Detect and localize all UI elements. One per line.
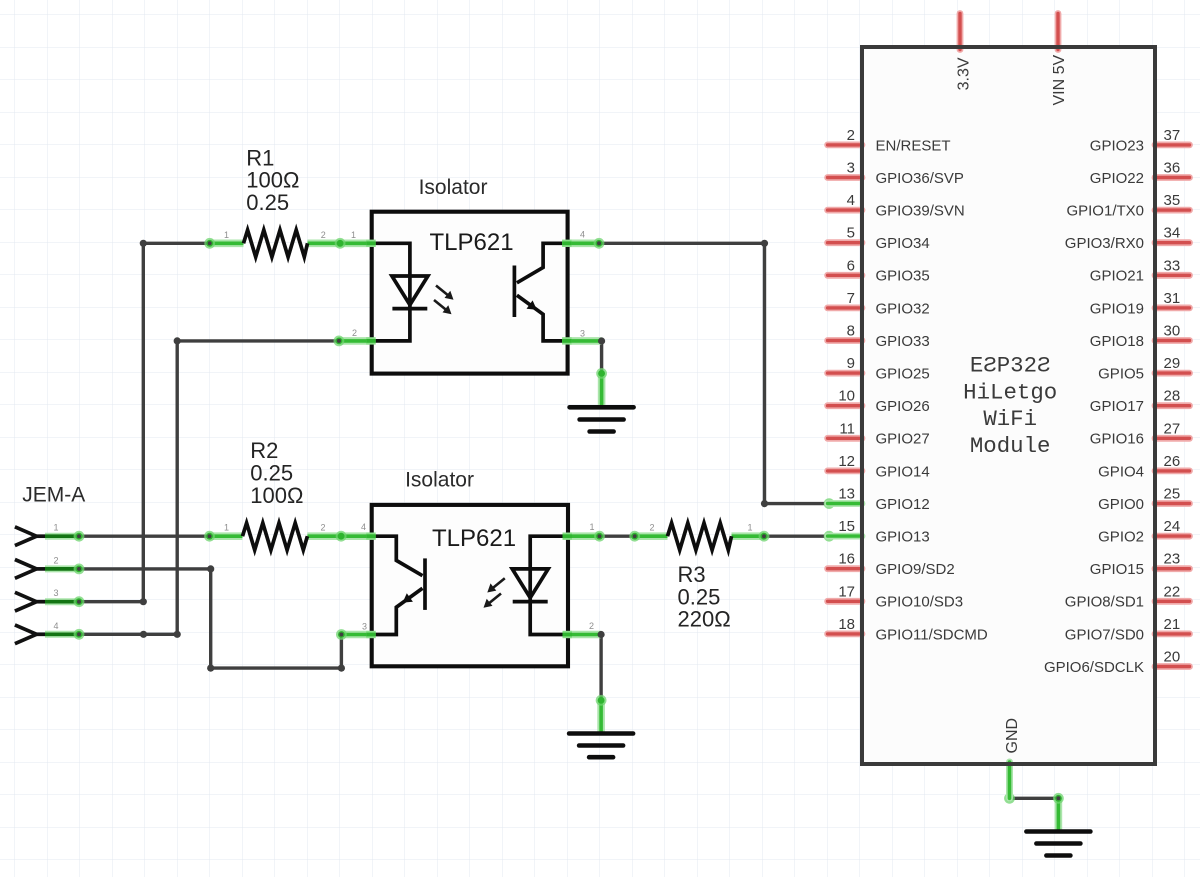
svg-text:GPIO33: GPIO33 (876, 333, 930, 350)
opto-isolator U1 box (372, 212, 568, 374)
wire isolator1 pin4 to GPIO12 (599, 243, 829, 503)
pin 16 GPIO9/SD2 stub (828, 565, 862, 572)
svg-text:9: 9 (847, 355, 855, 372)
svg-text:GPIO2: GPIO2 (1098, 529, 1144, 546)
svg-text:GPIO14: GPIO14 (876, 463, 930, 480)
svg-text:GPIO21: GPIO21 (1090, 268, 1144, 285)
svg-text:GPIO4: GPIO4 (1098, 463, 1144, 480)
svg-text:2: 2 (321, 230, 326, 240)
wire R1 feed from junction (143, 242, 209, 245)
svg-text:12: 12 (838, 453, 855, 470)
svg-text:1: 1 (54, 523, 59, 533)
svg-text:1: 1 (590, 522, 595, 532)
pin 3 GPIO36/SVP stub (828, 174, 862, 181)
node ground1 corner (598, 337, 605, 344)
node ground2 corner (598, 631, 605, 638)
svg-text:13: 13 (838, 486, 855, 503)
pin 11 GPIO27 stub (828, 435, 862, 442)
svg-text:4: 4 (361, 522, 366, 532)
pin 9 GPIO25 stub (828, 370, 862, 377)
svg-text:0.25: 0.25 (678, 584, 721, 609)
pin 5 GPIO34 stub (828, 239, 862, 246)
wire green R2 left lead (210, 532, 243, 540)
svg-text:27: 27 (1164, 420, 1181, 437)
pin pad U1 pin4 (562, 240, 572, 247)
node ground1 bend (596, 368, 607, 379)
svg-text:GPIO35: GPIO35 (876, 268, 930, 285)
svg-text:15: 15 (838, 518, 855, 535)
svg-text:6: 6 (847, 257, 855, 274)
wire module GND horizontal (1010, 797, 1059, 800)
node JEM3 terminal (74, 596, 85, 607)
svg-text:Isolator: Isolator (419, 176, 488, 199)
svg-text:24: 24 (1164, 518, 1181, 535)
svg-text:GPIO3/RX0: GPIO3/RX0 (1065, 235, 1144, 252)
svg-text:33: 33 (1164, 257, 1181, 274)
svg-text:GPIO23: GPIO23 (1090, 137, 1144, 154)
svg-text:GPIO12: GPIO12 (876, 496, 930, 513)
svg-text:GPIO5: GPIO5 (1098, 366, 1144, 383)
pin 7 GPIO32 stub (828, 304, 862, 311)
node R1 left bend (204, 238, 215, 249)
svg-text:GPIO11/SDCMD: GPIO11/SDCMD (876, 626, 988, 643)
wire JEM1 to R2 (79, 535, 210, 538)
pin 13 GPIO12 stub (828, 500, 862, 507)
pin pad U2 pin3 (366, 631, 376, 638)
svg-text:3: 3 (54, 588, 59, 598)
pin 34 GPIO3/RX0 stub (1155, 239, 1190, 246)
node R2 right bend (336, 531, 347, 542)
node R2 left bend (204, 531, 215, 542)
pin 4 GPIO39/SVN stub (828, 207, 862, 214)
resistor R3 value labels (678, 562, 731, 632)
svg-text:GND: GND (1004, 718, 1021, 754)
svg-text:1: 1 (748, 523, 753, 533)
svg-text:R3: R3 (678, 562, 706, 587)
svg-text:11: 11 (839, 420, 855, 437)
node R1 junction (140, 240, 147, 247)
svg-text:EƧP32Ƨ: EƧP32Ƨ (970, 353, 1051, 379)
svg-text:4: 4 (54, 621, 59, 631)
node R3 right bend (759, 531, 770, 542)
svg-text:23: 23 (1164, 551, 1181, 568)
pin 23 GPIO15 stub (1155, 565, 1190, 572)
pin GND stub (green) (1006, 762, 1013, 798)
svg-text:3.3V: 3.3V (955, 57, 972, 90)
svg-text:WiFi: WiFi (983, 406, 1037, 432)
connector JEM-A pin digits (54, 523, 59, 631)
node JEM2 corner a (207, 565, 214, 572)
svg-text:100Ω: 100Ω (246, 168, 299, 193)
svg-text:21: 21 (1164, 616, 1181, 633)
svg-text:20: 20 (1164, 649, 1181, 666)
node isolator2 pin3 bend (336, 629, 347, 640)
svg-text:25: 25 (1164, 486, 1181, 503)
pin 35 GPIO1/TX0 stub (1155, 207, 1190, 214)
svg-text:GPIO25: GPIO25 (876, 366, 930, 383)
wire green R1 left lead (210, 240, 244, 248)
svg-text:TLP621: TLP621 (432, 525, 516, 552)
pin 27 GPIO16 stub (1155, 435, 1190, 442)
phototransistor inside U1 (514, 243, 567, 341)
svg-text:2: 2 (54, 555, 59, 565)
svg-text:26: 26 (1164, 453, 1181, 470)
pin 28 GPIO17 stub (1155, 402, 1190, 409)
svg-text:GPIO15: GPIO15 (1090, 561, 1144, 578)
connector JEM-A pin 2 (15, 560, 79, 579)
pin 20 GPIO6/SDCLK stub (1155, 663, 1190, 670)
svg-text:GPIO34: GPIO34 (876, 235, 930, 252)
pin pad U2 pin2 (563, 631, 573, 638)
pin 30 GPIO18 stub (1155, 337, 1190, 344)
svg-text:4: 4 (580, 229, 585, 239)
svg-text:GPIO39/SVN: GPIO39/SVN (876, 203, 965, 220)
node GPIO12 bend (824, 498, 835, 509)
wire green isolator1 pin4 stub (565, 240, 599, 248)
node GPIO12 corner b (761, 500, 768, 507)
svg-text:3: 3 (580, 328, 585, 338)
wire green isolator1 pin2 stub (339, 337, 375, 345)
pin pad U1 pin1 (366, 240, 376, 247)
node JEM1 terminal (74, 531, 85, 542)
svg-text:30: 30 (1164, 323, 1181, 340)
wire green isolator1 pin3 stub (565, 337, 602, 345)
svg-text:17: 17 (838, 583, 855, 600)
ESP32 module center label (963, 353, 1057, 459)
svg-text:31: 31 (1164, 290, 1181, 307)
phototransistor U1 emitter arrow (527, 300, 537, 309)
svg-text:36: 36 (1164, 160, 1181, 177)
svg-text:2: 2 (650, 523, 655, 533)
svg-text:29: 29 (1164, 355, 1181, 372)
pin 25 GPIO0 stub (1155, 500, 1190, 507)
pin 24 GPIO2 stub (1155, 533, 1190, 540)
node JEM3 corner (140, 598, 147, 605)
svg-text:GPIO36/SVP: GPIO36/SVP (876, 170, 964, 187)
wire green R1 right to isolator1 pin1 (308, 240, 375, 248)
wire isolator2 pin1 to R3 mid segment (600, 535, 635, 538)
DARK JUNCTION DOTS (140, 240, 768, 672)
wire green R3 right lead (732, 532, 765, 540)
svg-text:3: 3 (847, 160, 855, 177)
svg-text:2: 2 (589, 621, 594, 631)
node GPIO12 corner a (761, 240, 768, 247)
ground symbol G2 below isolator2 (569, 734, 633, 758)
node JEM4 terminal (74, 629, 85, 640)
node R3 left bend (629, 531, 640, 542)
pin pad U2 pin1 (563, 533, 573, 540)
svg-text:Isolator: Isolator (405, 469, 474, 492)
GREEN BENDPOINT DOTS (74, 238, 1064, 804)
svg-text:0.25: 0.25 (250, 461, 293, 486)
pin 37 GPIO23 stub (1155, 141, 1190, 148)
svg-text:GPIO1/TX0: GPIO1/TX0 (1066, 203, 1144, 220)
wire vertical JEM3 to R1 junction (79, 243, 143, 601)
svg-text:GPIO6/SDCLK: GPIO6/SDCLK (1044, 659, 1144, 676)
node JEM4 bend b (174, 631, 181, 638)
wire green R3 left lead (635, 532, 668, 540)
pin 12 GPIO14 stub (828, 467, 862, 474)
node JEM4 bend a (140, 631, 147, 638)
svg-text:GPIO19: GPIO19 (1090, 300, 1144, 317)
wire JEM2 to isolator2 pin3 (79, 569, 341, 668)
svg-text:GPIO32: GPIO32 (876, 300, 930, 317)
wire green ground3 drop (1055, 798, 1063, 831)
svg-text:EN/RESET: EN/RESET (876, 137, 951, 154)
pin 3.3V stub (957, 14, 964, 50)
svg-text:8: 8 (847, 323, 855, 340)
node R1 right bend (335, 238, 346, 249)
pin 26 GPIO4 stub (1155, 467, 1190, 474)
wire isolator1 pin3 down to ground (600, 341, 603, 374)
svg-text:7: 7 (847, 290, 855, 307)
svg-text:100Ω: 100Ω (250, 483, 303, 508)
node GPIO13 bend (824, 531, 835, 542)
LED U1 light arrows (434, 286, 454, 315)
LED U2 light arrows (484, 578, 505, 608)
svg-text:18: 18 (838, 616, 855, 633)
svg-text:4: 4 (847, 192, 855, 209)
node JEM2 terminal (74, 564, 85, 575)
svg-text:1: 1 (224, 523, 229, 533)
ESP32 module U3 body fill (862, 47, 1155, 764)
LED inside U1 (372, 243, 428, 341)
svg-text:1: 1 (224, 230, 229, 240)
svg-text:3: 3 (362, 622, 367, 632)
pin 31 GPIO19 stub (1155, 304, 1190, 311)
pin 21 GPIO7/SD0 stub (1155, 631, 1190, 638)
wire green isolator2 pin1 stub (565, 532, 599, 540)
svg-text:GPIO26: GPIO26 (876, 398, 930, 415)
svg-text:GPIO18: GPIO18 (1090, 333, 1144, 350)
LED inside U2 (512, 536, 568, 634)
resistor R1 value labels (246, 145, 299, 215)
opto-isolator U2 box (372, 505, 568, 666)
svg-text:2: 2 (352, 328, 357, 338)
svg-text:Module: Module (970, 433, 1051, 459)
svg-text:16: 16 (838, 551, 855, 568)
svg-text:GPIO10/SD3: GPIO10/SD3 (876, 594, 964, 611)
node isolator1 pin2 corner (174, 337, 181, 344)
svg-text:0.25: 0.25 (246, 190, 289, 215)
svg-text:GPIO27: GPIO27 (876, 431, 930, 448)
pin 15 GPIO13 stub (828, 533, 862, 540)
svg-text:TLP621: TLP621 (430, 229, 514, 256)
wire isolator2 pin2 down to ground (599, 635, 602, 701)
svg-text:R1: R1 (246, 145, 274, 170)
isolator U2 pin digits (224, 522, 753, 631)
svg-text:34: 34 (1164, 225, 1181, 242)
wire JEM4 to isolator1 pin2 (79, 341, 339, 634)
svg-text:GPIO17: GPIO17 (1090, 398, 1144, 415)
svg-text:JEM-A: JEM-A (22, 483, 85, 506)
wire green ground1 drop (598, 373, 606, 406)
wire green isolator2 pin3 stub (341, 631, 374, 639)
svg-text:R2: R2 (250, 438, 278, 463)
pin 33 GPIO21 stub (1155, 272, 1190, 279)
svg-text:GPIO9/SD2: GPIO9/SD2 (876, 561, 955, 578)
svg-text:1: 1 (351, 230, 356, 240)
resistor R2 value labels (250, 438, 303, 508)
pin 18 GPIO11/SDCMD stub (828, 631, 862, 638)
svg-text:22: 22 (1164, 583, 1181, 600)
pin pad U2 pin4 (366, 533, 376, 540)
node isolator1 pin2 bend (334, 336, 345, 347)
wire green R2 right to isolator2 pin4 (307, 532, 374, 540)
node ground2 bend (596, 695, 607, 706)
pin 22 GPIO8/SD1 stub (1155, 598, 1190, 605)
WIRES-GREEN (210, 243, 1059, 831)
svg-text:GPIO8/SD1: GPIO8/SD1 (1065, 594, 1144, 611)
phototransistor U2 emitter arrow (403, 593, 413, 602)
pin 10 GPIO26 stub (828, 402, 862, 409)
node GND wire bend right (1053, 793, 1064, 804)
resistor R2 (243, 523, 308, 550)
resistor R1 (244, 230, 308, 257)
pin VIN 5V stub (1055, 14, 1062, 50)
pin 2 EN/RESET stub (828, 141, 862, 148)
connector JEM-A pin 4 (15, 625, 79, 644)
ESP32 module U3 border (862, 47, 1155, 764)
node JEM2 corner b (207, 665, 214, 672)
ground symbol G3 below module GND (1026, 832, 1090, 856)
node GND wire bend left (1004, 793, 1015, 804)
wire green isolator2 pin2 stub (565, 631, 601, 639)
pin 6 GPIO35 stub (828, 272, 862, 279)
svg-text:GPIO16: GPIO16 (1090, 431, 1144, 448)
svg-text:GPIO13: GPIO13 (876, 529, 930, 546)
pin 36 GPIO22 stub (1155, 174, 1190, 181)
svg-text:5: 5 (847, 225, 855, 242)
svg-text:2: 2 (321, 523, 326, 533)
svg-text:HiLetgo: HiLetgo (963, 379, 1057, 405)
node isolator2 pin1 bend (594, 531, 605, 542)
svg-text:VIN 5V: VIN 5V (1051, 54, 1068, 105)
pin 29 GPIO5 stub (1155, 370, 1190, 377)
resistor R3 (668, 523, 732, 550)
WIRES-DARK (79, 243, 1058, 798)
svg-text:35: 35 (1164, 192, 1181, 209)
svg-text:28: 28 (1164, 388, 1181, 405)
svg-text:GPIO0: GPIO0 (1098, 496, 1144, 513)
pin 17 GPIO10/SD3 stub (828, 598, 862, 605)
svg-text:2: 2 (847, 127, 855, 144)
svg-text:220Ω: 220Ω (678, 607, 731, 632)
svg-text:37: 37 (1164, 127, 1181, 144)
svg-text:GPIO7/SD0: GPIO7/SD0 (1065, 626, 1144, 643)
svg-text:GPIO22: GPIO22 (1090, 170, 1144, 187)
wire R3 to GPIO13 mid segment (764, 535, 829, 538)
connector JEM-A pin 1 (15, 527, 79, 546)
svg-text:10: 10 (838, 388, 855, 405)
isolator U1 pin digits (224, 229, 585, 338)
pin pad U1 pin2 (366, 337, 376, 344)
ground symbol G1 below isolator1 (570, 407, 634, 431)
wire green ground2 drop (597, 700, 605, 733)
node isolator1 pin4 bend (594, 238, 605, 249)
pin pad U1 pin3 (562, 337, 572, 344)
node JEM2 corner c (338, 665, 345, 672)
pin 8 GPIO33 stub (828, 337, 862, 344)
connector JEM-A pin 3 (15, 592, 79, 611)
phototransistor inside U2 (372, 536, 425, 634)
